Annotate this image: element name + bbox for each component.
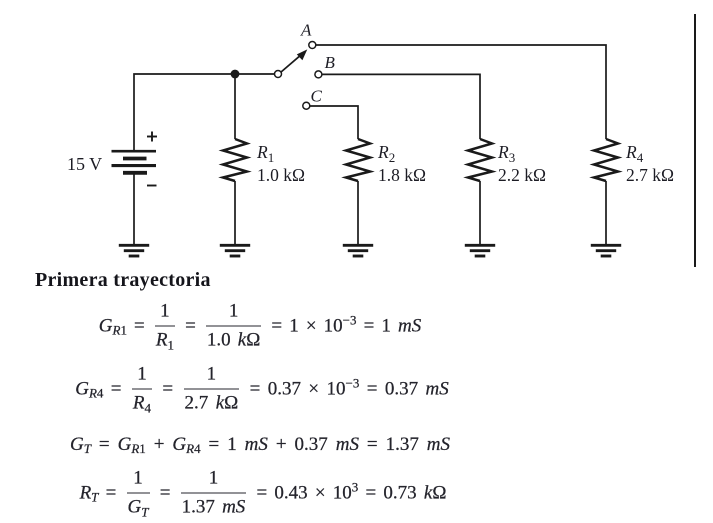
svg-text:R3: R3: [497, 142, 515, 165]
figure border rule (right): [694, 14, 696, 267]
battery 15 V : plates: [112, 151, 157, 173]
svg-text:1.8 kΩ: 1.8 kΩ: [378, 165, 426, 185]
switch arm with arrowhead toward contact A: [281, 53, 303, 72]
ground: under R1: [220, 245, 250, 256]
ground: under R3: [465, 245, 495, 256]
svg-text:A: A: [300, 21, 312, 40]
svg-text:1.0 kΩ: 1.0 kΩ: [257, 165, 305, 185]
svg-text:C: C: [311, 87, 323, 106]
resistor R4 zigzag: [594, 139, 618, 181]
ground: under R4: [591, 245, 621, 256]
resistor R2 zigzag: [346, 139, 370, 181]
battery plus sign: [147, 132, 157, 142]
equation R_T: [3, 465, 523, 522]
svg-text:R1: R1: [256, 142, 274, 165]
node: junction dot: [231, 70, 240, 79]
wire: junction down to resistor R1: [234, 74, 236, 139]
battery minus sign: [147, 185, 157, 187]
resistor R1 zigzag: [223, 139, 247, 181]
switch contact C circle: [303, 102, 310, 109]
equation G_T: [0, 434, 520, 456]
wire: battery positive to junction node: [134, 74, 231, 150]
heading: Primera trayectoria: [35, 269, 211, 292]
circuit schematic figure: [0, 0, 713, 270]
svg-text:R2: R2: [377, 142, 395, 165]
wire: battery negative down to ground: [133, 174, 135, 245]
wire: R4 bottom to ground: [605, 181, 607, 245]
svg-text:R4: R4: [625, 142, 644, 165]
svg-text:15 V: 15 V: [67, 154, 102, 174]
wire: R3 bottom to ground: [479, 181, 481, 245]
svg-text:B: B: [325, 53, 336, 72]
wire: junction to switch pole: [235, 73, 274, 75]
wire: contact B to R3: [322, 74, 480, 139]
equation G_R1: [0, 298, 520, 355]
ground: under battery: [119, 245, 149, 256]
switch pole contact circle: [275, 71, 282, 78]
ground: under R2: [343, 245, 373, 256]
wire: contact C to R2: [310, 106, 358, 139]
switch contact B circle: [315, 71, 322, 78]
switch contact A circle: [309, 42, 316, 49]
wire: R2 bottom to ground: [357, 181, 359, 245]
wire: contact A to R4: [316, 45, 606, 139]
svg-text:2.2 kΩ: 2.2 kΩ: [498, 165, 546, 185]
resistor R3 zigzag: [468, 139, 492, 181]
equation G_R4: [2, 361, 522, 418]
wire: R1 bottom to ground: [234, 181, 236, 245]
svg-text:2.7 kΩ: 2.7 kΩ: [626, 165, 674, 185]
